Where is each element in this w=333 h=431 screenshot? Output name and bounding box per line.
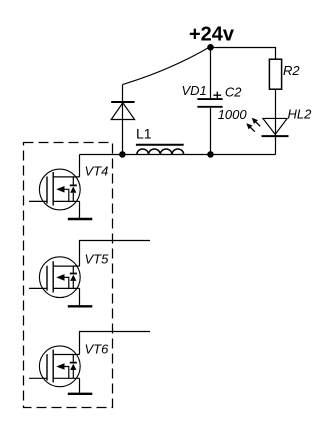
svg-text:HL2: HL2: [288, 107, 313, 122]
svg-text:C2: C2: [225, 85, 242, 100]
svg-text:VT6: VT6: [85, 342, 110, 357]
svg-text:R2: R2: [283, 63, 300, 78]
svg-text:VT5: VT5: [85, 252, 110, 267]
svg-text:+24v: +24v: [189, 23, 235, 45]
svg-text:VD1: VD1: [182, 83, 207, 98]
svg-text:1000: 1000: [218, 107, 248, 122]
svg-text:VT4: VT4: [85, 164, 109, 179]
svg-text:L1: L1: [136, 126, 152, 142]
